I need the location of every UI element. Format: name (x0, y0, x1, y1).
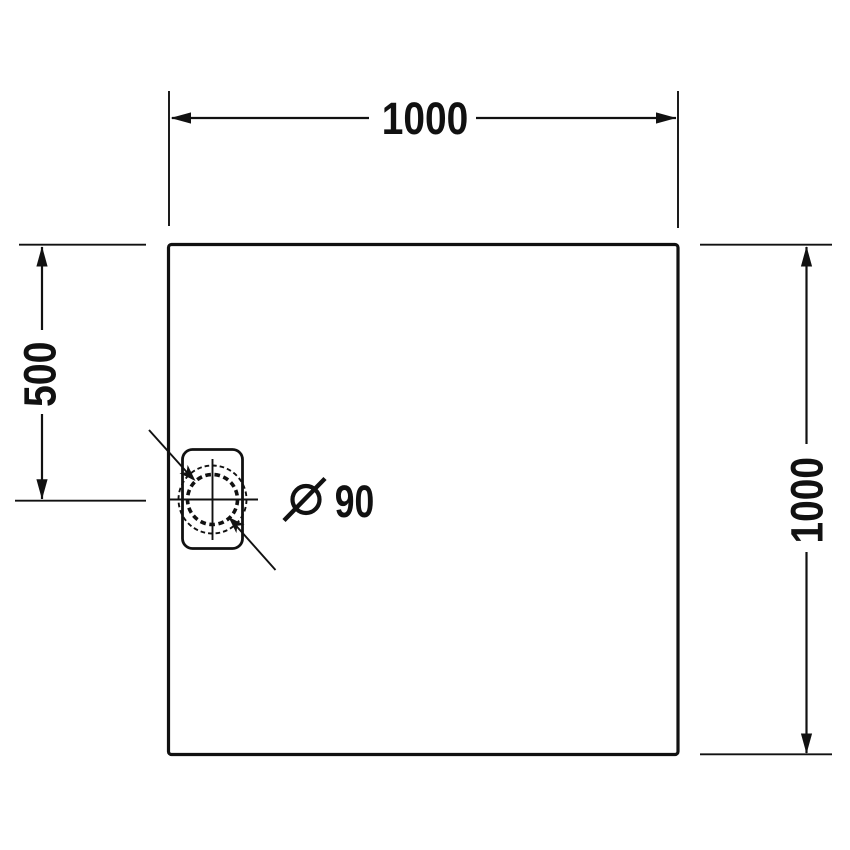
right dimension arrow up (801, 246, 812, 266)
top dimension line right segment (476, 117, 676, 119)
drain centerline horizontal (170, 499, 258, 501)
left dimension (500): extension line bottom (15, 500, 146, 502)
tray outline (square 1000x1000) (169, 245, 679, 755)
right dimension arrow down (801, 734, 812, 754)
right dimension (1000): extension line bottom (700, 753, 832, 755)
right dimension (1000): extension line top (700, 244, 832, 246)
drain outer dashed circle (flange) (179, 466, 247, 534)
top dimension arrow right (656, 112, 677, 123)
left dimension line lower segment (41, 414, 43, 499)
leader line lower-right (231, 520, 276, 570)
svg-text:500: 500 (15, 342, 66, 408)
drain centerline vertical (212, 459, 214, 540)
diameter symbol circle (293, 486, 320, 513)
drain inner dashed circle (waste hole) (188, 475, 238, 525)
svg-text:1000: 1000 (782, 457, 833, 544)
top dimension: extension line left (168, 91, 170, 226)
left dimension (500): extension line top (19, 244, 146, 246)
right dimension line upper segment (805, 247, 807, 444)
diameter symbol slash (284, 479, 325, 521)
svg-text:1000: 1000 (382, 93, 469, 144)
right dimension line lower segment (805, 552, 807, 753)
left dimension arrow up (36, 246, 47, 266)
left dimension line upper segment (41, 247, 43, 330)
top dimension arrow left (171, 112, 192, 123)
leader arrow upper-left (179, 465, 195, 481)
leader line upper-left (149, 430, 193, 479)
svg-text:90: 90 (335, 476, 375, 527)
top dimension: extension line right (677, 91, 679, 228)
top dimension line left segment (172, 117, 369, 119)
left dimension arrow down (36, 479, 47, 499)
drain cutout rounded rectangle (183, 450, 243, 549)
leader arrow lower-right (229, 517, 245, 533)
